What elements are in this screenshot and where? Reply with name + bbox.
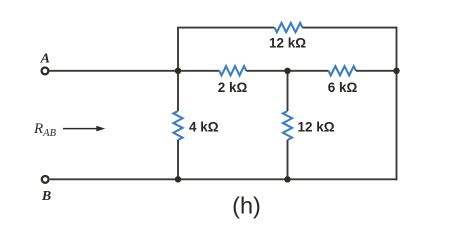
wire: node 2 down to 12k resistor xyxy=(287,71,289,111)
arrow RAB xyxy=(63,128,97,130)
terminal A xyxy=(42,68,49,75)
wire: 4k resistor down to bottom node xyxy=(177,140,179,179)
svg-text:(h): (h) xyxy=(232,192,261,218)
svg-text:B: B xyxy=(41,189,51,204)
resistor 4 kOhm (vertical) xyxy=(173,111,182,140)
wire: node 1 down to 4k resistor xyxy=(177,71,179,111)
wire: 12k resistor down to bottom node xyxy=(287,140,289,179)
svg-text:A: A xyxy=(40,52,50,67)
node 5 (bottom of 12k) xyxy=(284,176,290,182)
terminal B xyxy=(42,176,49,183)
node 4 (bottom of 4k) xyxy=(175,176,181,182)
svg-text:12 kΩ: 12 kΩ xyxy=(298,120,335,135)
wire: 6k resistor to node 3 xyxy=(356,70,397,72)
node 2 xyxy=(284,68,290,74)
wire: A terminal to node 1 xyxy=(49,70,178,72)
wire: right vertical xyxy=(396,28,398,181)
svg-text:6 kΩ: 6 kΩ xyxy=(328,80,358,95)
wire: top branch left vertical xyxy=(177,28,179,71)
svg-text:12 kΩ: 12 kΩ xyxy=(269,36,306,51)
wire: top branch horizontal left xyxy=(177,27,274,29)
wire: 2k resistor to node 2 xyxy=(246,70,287,72)
resistor 2 kOhm xyxy=(219,66,246,75)
wire: node 2 to 6k resistor xyxy=(288,70,329,72)
resistor 6 kOhm xyxy=(329,66,357,75)
node 1 xyxy=(175,68,181,74)
svg-text:RAB: RAB xyxy=(33,121,57,139)
wire: bottom from B terminal to right xyxy=(50,178,397,180)
resistor 12 kOhm (top) xyxy=(275,23,303,32)
svg-text:4 kΩ: 4 kΩ xyxy=(189,120,219,135)
resistor 12 kOhm (vertical) xyxy=(283,111,292,140)
node 3 xyxy=(393,68,399,74)
svg-text:2 kΩ: 2 kΩ xyxy=(218,80,248,95)
wire: node 1 to 2k resistor xyxy=(178,70,219,72)
wire: top branch horizontal right xyxy=(303,27,398,29)
